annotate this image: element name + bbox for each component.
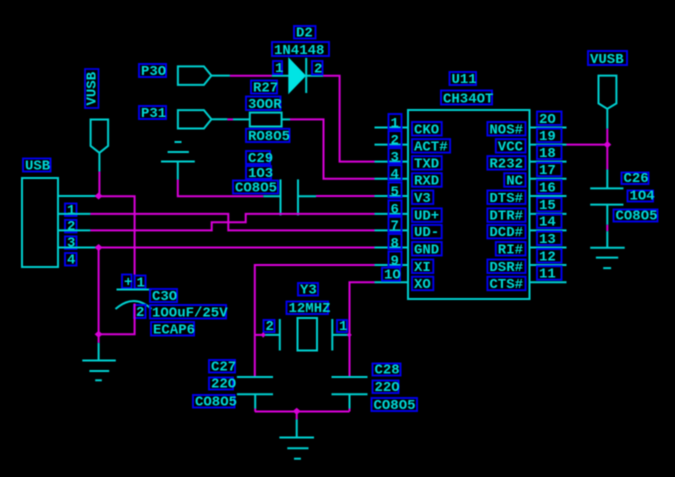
capacitor C26 value label 104 xyxy=(628,188,655,204)
svg-text:DSR#: DSR# xyxy=(489,260,523,276)
U11 pin 8 name GND xyxy=(412,242,442,258)
capacitor C28 value label 220 xyxy=(373,380,400,396)
junction at USB pin1 / VUSB xyxy=(95,193,103,200)
svg-text:U11: U11 xyxy=(452,72,477,88)
wire U11 XI pin 9 to crystal pin2 and C27 xyxy=(255,265,375,377)
svg-text:R27: R27 xyxy=(253,80,278,96)
U11 pin 17 stub xyxy=(530,178,567,180)
U11 pin 14 number xyxy=(537,214,562,230)
svg-text:5: 5 xyxy=(391,184,399,200)
capacitor C29 footprint label C0805 xyxy=(233,180,278,196)
svg-text:GND: GND xyxy=(414,242,439,258)
U11 pin 2 stub xyxy=(375,144,409,146)
junction at crystal pin1 branch xyxy=(347,332,352,338)
svg-text:VCC: VCC xyxy=(498,139,524,155)
U11 pin 1 name CKO xyxy=(412,122,442,138)
svg-text:1O: 1O xyxy=(384,268,401,284)
U11 pin 16 name DTS# xyxy=(487,191,525,207)
svg-text:1: 1 xyxy=(339,319,347,335)
U11 pin 11 stub xyxy=(530,281,567,283)
svg-text:Y3: Y3 xyxy=(300,282,317,298)
svg-text:ACT#: ACT# xyxy=(414,139,448,155)
diode D2 body xyxy=(289,58,306,93)
diode D2 designator label xyxy=(294,25,316,41)
U11 pin 11 number xyxy=(537,266,562,282)
U11 pin 3 number xyxy=(389,148,402,166)
svg-text:2: 2 xyxy=(136,305,144,321)
wire C26 to ground right xyxy=(606,225,608,231)
U11 pin 18 stub xyxy=(530,161,567,163)
svg-text:ECAP6: ECAP6 xyxy=(153,322,195,338)
port P30 symbol xyxy=(178,66,230,85)
U11 pin 10 number xyxy=(382,268,401,284)
svg-text:VUSB: VUSB xyxy=(85,71,101,105)
svg-text:CO8O5: CO8O5 xyxy=(374,398,416,414)
svg-text:DTR#: DTR# xyxy=(489,209,523,225)
capacitor C27 footprint label C0805 xyxy=(193,394,237,410)
ground symbol under P31 (bars up) xyxy=(161,142,195,180)
wire USB pin3 to U11 UD+ pin 6 (jog up) xyxy=(90,214,374,231)
svg-text:1OOuF/25V: 1OOuF/25V xyxy=(152,305,228,321)
svg-text:8: 8 xyxy=(391,236,399,252)
U11 pin 20 stub xyxy=(530,127,567,129)
USB pin 2 stub xyxy=(58,213,90,215)
svg-text:13: 13 xyxy=(539,232,556,248)
svg-text:3OOR: 3OOR xyxy=(248,97,282,113)
svg-text:VUSB: VUSB xyxy=(590,52,624,68)
svg-text:XO: XO xyxy=(414,277,431,293)
USB pin 2 number xyxy=(65,219,77,235)
U11 pin 5 number xyxy=(389,183,402,201)
capacitor C26 footprint label C0805 xyxy=(614,208,658,224)
capacitor C30 pin 1 number xyxy=(135,275,146,291)
capacitor C29 designator label xyxy=(246,151,273,167)
svg-text:11: 11 xyxy=(539,267,556,283)
wire VUSB left to USB pin1 row xyxy=(98,172,100,196)
svg-text:C27: C27 xyxy=(211,359,236,375)
port P30 name label xyxy=(139,64,166,80)
svg-text:C29: C29 xyxy=(248,151,273,167)
junction at C30 ground corner xyxy=(95,331,103,338)
svg-text:NC: NC xyxy=(506,174,523,190)
svg-text:RXD: RXD xyxy=(414,174,439,190)
svg-text:12: 12 xyxy=(539,249,556,265)
power port VUSB left symbol xyxy=(91,120,109,172)
wire U11 XO pin 10 to crystal pin1 and C28 xyxy=(350,282,375,377)
capacitor C30 curved bottom plate xyxy=(116,301,152,309)
wire P30 to diode D2 anode xyxy=(230,75,272,77)
capacitor C30 footprint label ECAP6 xyxy=(151,322,195,338)
U11 pin 11 name CTS# xyxy=(487,277,525,293)
wire R27 to U11 RXD pin 4 xyxy=(290,119,375,178)
U11 pin 15 stub xyxy=(530,213,567,215)
U11 pin 12 name DSR# xyxy=(487,260,525,276)
svg-text:P31: P31 xyxy=(141,106,166,122)
U11 pin 6 number xyxy=(389,200,402,218)
capacitor C30 pin 2 number xyxy=(134,305,146,321)
capacitor C30 value label 100uF/25V xyxy=(150,305,228,321)
USB pin 4 stub xyxy=(58,247,99,249)
crystal Y3 body xyxy=(280,318,333,351)
svg-text:CH34OT: CH34OT xyxy=(443,91,493,107)
capacitor C29 plates xyxy=(263,179,316,215)
capacitor C27 designator label xyxy=(209,359,236,375)
power port VUSB right name label xyxy=(588,51,627,68)
U11 pin 5 name V3 xyxy=(412,191,433,207)
svg-text:1: 1 xyxy=(275,61,283,77)
U11 pin 8 number xyxy=(389,234,402,252)
wire C27/C28 bottoms to ground xyxy=(255,409,350,420)
U11 pin 12 stub xyxy=(530,264,567,266)
wire ground to C29 left plate xyxy=(178,180,264,197)
U11 pin 10 name XO xyxy=(412,277,433,293)
svg-text:C26: C26 xyxy=(624,171,649,187)
svg-text:2: 2 xyxy=(67,219,75,235)
U11 pin 2 name ACT# xyxy=(412,139,450,155)
svg-text:DCD#: DCD# xyxy=(489,225,523,241)
USB pin 3 number xyxy=(65,236,77,252)
diode D2 pin 1 number xyxy=(273,61,283,77)
svg-text:NOS#: NOS# xyxy=(489,122,523,138)
U11 pin 16 stub xyxy=(530,195,567,197)
diode D2 cathode lead and pin 2 xyxy=(306,75,323,77)
U11 pin 18 name R232 xyxy=(487,156,525,172)
svg-text:CKO: CKO xyxy=(414,122,439,138)
svg-text:4: 4 xyxy=(67,252,75,268)
resistor R27 body xyxy=(233,113,290,127)
USB pin 4 number xyxy=(65,252,77,268)
U11 pin 20 name NOS# xyxy=(487,122,525,138)
svg-text:1: 1 xyxy=(391,116,399,132)
wire P31 to resistor R27 xyxy=(227,118,233,120)
svg-text:4: 4 xyxy=(391,167,399,183)
diode D2 pin 2 number xyxy=(312,61,323,77)
svg-text:2: 2 xyxy=(314,61,322,77)
U11 pin 19 name VCC xyxy=(496,139,526,155)
crystal Y3 pin 1 lead xyxy=(332,334,349,336)
connector USB name label xyxy=(23,158,51,174)
svg-text:6: 6 xyxy=(391,202,399,218)
USB pin 1 stub xyxy=(58,195,99,197)
svg-text:+: + xyxy=(124,275,132,291)
U11 pin 9 number xyxy=(389,252,402,270)
U11 pin 17 number xyxy=(537,163,562,179)
U11 pin 19 stub xyxy=(530,144,567,146)
U11 pin 6 stub xyxy=(375,213,409,215)
svg-text:14: 14 xyxy=(539,215,556,231)
svg-text:USB: USB xyxy=(25,158,51,174)
ground symbol bottom center xyxy=(279,419,314,458)
wire USB pin4 down to ground xyxy=(98,248,100,343)
svg-text:DTS#: DTS# xyxy=(489,191,523,207)
U11 pin 19 number xyxy=(537,129,562,145)
power port VUSB left name (vertical) xyxy=(85,69,101,108)
wire USB pin4 GND rail to U11 GND pin 8 xyxy=(99,247,375,249)
svg-text:2: 2 xyxy=(266,319,274,335)
svg-text:CO8O5: CO8O5 xyxy=(235,180,277,196)
svg-text:12MHZ: 12MHZ xyxy=(289,301,331,317)
U11 pin 1 stub xyxy=(375,127,409,129)
svg-text:19: 19 xyxy=(539,129,556,145)
wire USB pin1 row to C30 positive lead xyxy=(99,196,135,289)
junction at VUSB right stem xyxy=(603,141,611,148)
crystal Y3 designator label xyxy=(298,282,318,298)
svg-text:CTS#: CTS# xyxy=(489,277,523,293)
crystal Y3 pin 2 number xyxy=(264,319,275,335)
svg-text:22O: 22O xyxy=(375,380,400,396)
capacitor C30 plus sign label xyxy=(122,275,132,291)
U11 pin 14 stub xyxy=(530,229,567,231)
resistor R27 value label 300R xyxy=(246,97,282,113)
svg-text:2O: 2O xyxy=(539,112,556,128)
svg-text:3: 3 xyxy=(67,236,75,252)
diode D2 anode lead and pin 1 xyxy=(272,75,289,77)
junction at USB pin4 xyxy=(95,244,103,251)
U11 pin 14 name DCD# xyxy=(487,225,525,241)
capacitor C26 designator label xyxy=(622,171,649,187)
capacitor C27 value label 220 xyxy=(209,376,236,392)
U11 pin 10 stub xyxy=(375,281,409,283)
svg-text:22O: 22O xyxy=(211,376,236,392)
junction at bottom ground xyxy=(293,408,301,415)
power port VUSB right symbol xyxy=(599,76,617,129)
crystal Y3 value label 12MHZ xyxy=(287,301,331,317)
U11 pin 12 number xyxy=(537,249,562,265)
svg-text:D2: D2 xyxy=(296,25,313,41)
USB pin 1 number xyxy=(65,203,77,219)
wire USB pin2 to U11 UD- pin 7 (jog down) xyxy=(90,214,374,231)
op-amp U11 CH340T body xyxy=(408,110,530,299)
U11 pin 9 name XI xyxy=(412,260,433,276)
svg-text:P3O: P3O xyxy=(141,64,166,80)
U11 part number label CH340T xyxy=(441,91,493,108)
svg-text:16: 16 xyxy=(539,180,556,196)
capacitor C27 plates xyxy=(237,377,273,409)
svg-text:3: 3 xyxy=(391,150,399,166)
capacitor C28 footprint label C0805 xyxy=(372,398,418,414)
capacitor C30 designator label xyxy=(150,289,177,305)
U11 pin 16 number xyxy=(537,180,562,196)
wire U11 VCC pin 19 to VUSB right xyxy=(567,129,608,170)
U11 pin 3 stub xyxy=(375,161,409,163)
svg-text:RO8O5: RO8O5 xyxy=(248,129,290,145)
svg-text:15: 15 xyxy=(539,198,556,214)
svg-text:CO8O5: CO8O5 xyxy=(195,394,237,410)
U11 pin 2 number xyxy=(389,131,402,149)
resistor R27 designator label xyxy=(251,80,278,96)
capacitor C30 top plate xyxy=(117,289,152,291)
crystal Y3 pin 2 lead xyxy=(263,334,280,336)
port P31 symbol xyxy=(178,110,228,128)
U11 pin 13 number xyxy=(537,232,562,248)
wire D2 cathode to U11 TXD pin 3 xyxy=(323,76,374,162)
U11 pin 9 stub xyxy=(375,264,409,266)
U11 pin 6 name UD+ xyxy=(412,208,442,224)
diode D2 value label 1N4148 xyxy=(272,42,329,59)
svg-text:1: 1 xyxy=(67,203,75,219)
U11 pin 13 name RI# xyxy=(496,242,526,258)
U11 pin 1 number xyxy=(389,114,402,132)
U11 pin 5 stub xyxy=(375,195,409,197)
U11 pin 18 number xyxy=(537,146,562,162)
svg-text:1N4148: 1N4148 xyxy=(274,43,324,59)
U11 pin 4 name RXD xyxy=(412,173,442,189)
svg-text:17: 17 xyxy=(539,163,556,179)
svg-text:1O4: 1O4 xyxy=(630,188,655,204)
U11 pin 15 number xyxy=(537,198,562,214)
port P31 name label xyxy=(139,106,166,122)
svg-text:V3: V3 xyxy=(414,191,431,207)
svg-text:RI#: RI# xyxy=(498,242,523,258)
svg-text:C3O: C3O xyxy=(152,289,177,305)
svg-text:2: 2 xyxy=(391,133,399,149)
connector USB body xyxy=(22,178,58,267)
svg-text:CO8O5: CO8O5 xyxy=(616,208,658,224)
crystal Y3 pin 1 number xyxy=(337,319,347,335)
capacitor C28 plates xyxy=(332,377,368,409)
svg-text:C28: C28 xyxy=(375,362,400,378)
U11 designator label xyxy=(450,72,477,88)
capacitor C29 value label 103 xyxy=(246,166,273,182)
svg-text:XI: XI xyxy=(414,260,431,276)
U11 pin 4 stub xyxy=(375,178,409,180)
capacitor C28 designator label xyxy=(373,362,401,378)
svg-text:UD+: UD+ xyxy=(414,209,439,225)
junction at crystal pin2 branch xyxy=(261,332,266,338)
wire C29 to U11 V3 pin 5 xyxy=(316,195,375,197)
capacitor C26 plates xyxy=(590,169,623,224)
U11 pin 8 stub xyxy=(375,247,409,249)
U11 pin 3 name TXD xyxy=(412,156,442,172)
svg-text:UD-: UD- xyxy=(414,225,439,241)
svg-text:TXD: TXD xyxy=(414,156,439,172)
U11 pin 17 name NC xyxy=(504,173,525,189)
ground symbol below USB xyxy=(82,343,116,380)
wire C30 negative lead to ground rail xyxy=(99,304,135,335)
U11 pin 7 stub xyxy=(375,229,409,231)
svg-text:18: 18 xyxy=(539,146,556,162)
U11 pin 15 name DTR# xyxy=(487,208,525,224)
resistor R27 footprint label R0805 xyxy=(246,129,290,145)
svg-text:R232: R232 xyxy=(489,156,523,172)
USB pin 3 stub xyxy=(58,229,90,231)
U11 pin 13 stub xyxy=(530,247,567,249)
ground symbol right of C26 xyxy=(590,231,625,268)
U11 pin 7 number xyxy=(389,217,402,235)
U11 pin 20 number xyxy=(537,112,562,128)
svg-text:7: 7 xyxy=(391,219,399,235)
U11 pin 7 name UD- xyxy=(412,225,442,241)
U11 pin 4 number xyxy=(389,165,402,183)
